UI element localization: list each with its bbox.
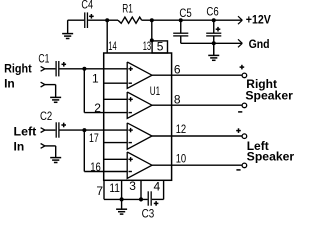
svg-text:5: 5 [157,40,164,54]
svg-text:Left: Left [14,125,37,139]
svg-text:U1: U1 [150,84,161,98]
svg-text:3: 3 [129,179,136,193]
svg-text:16: 16 [90,160,101,174]
svg-text:In: In [14,140,25,154]
svg-text:C2: C2 [40,111,52,123]
svg-text:+12V: +12V [246,13,271,27]
svg-text:14: 14 [108,39,117,53]
svg-text:8: 8 [174,93,181,107]
svg-text:C5: C5 [179,8,191,20]
svg-text:17: 17 [89,131,99,145]
svg-text:Right: Right [4,61,32,75]
svg-text:1: 1 [92,71,99,85]
svg-text:C4: C4 [81,0,93,12]
svg-text:C3: C3 [142,208,155,220]
svg-text:R1: R1 [122,4,133,16]
svg-text:Speaker: Speaker [245,88,293,102]
svg-text:2: 2 [94,101,101,115]
svg-text:6: 6 [174,63,181,77]
svg-text:C1: C1 [38,53,49,65]
svg-text:Gnd: Gnd [249,37,270,51]
svg-text:Speaker: Speaker [247,149,295,163]
svg-text:C6: C6 [206,7,218,19]
svg-text:4: 4 [154,179,161,193]
svg-text:7: 7 [96,184,103,198]
svg-text:11: 11 [109,181,120,195]
svg-text:10: 10 [176,151,187,165]
svg-text:13: 13 [143,39,152,53]
svg-text:In: In [4,76,15,90]
svg-text:12: 12 [176,122,187,136]
